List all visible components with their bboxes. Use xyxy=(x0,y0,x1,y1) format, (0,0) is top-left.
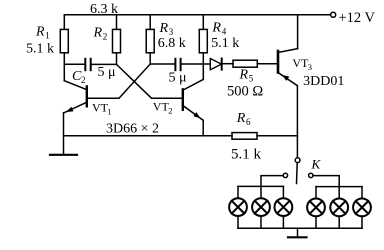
wire cross coupling R2 to VT2 base xyxy=(117,64,182,98)
label R3 xyxy=(159,21,174,37)
transistor VT3 xyxy=(278,49,298,86)
wire top rail +12V xyxy=(64,14,330,16)
diode VD xyxy=(210,59,221,70)
label R1 xyxy=(35,25,50,41)
wire lamp stubs left top xyxy=(237,186,239,198)
svg-text:3D66 × 2: 3D66 × 2 xyxy=(106,122,159,137)
svg-text:3: 3 xyxy=(308,62,312,72)
resistor R1 xyxy=(60,15,68,64)
wire left lamp top bus xyxy=(238,185,283,187)
resistor R4 xyxy=(199,15,207,80)
wire VT1 emitter to ground xyxy=(63,113,65,154)
label R5 xyxy=(239,68,254,84)
svg-text:2: 2 xyxy=(168,106,172,116)
svg-text:6.8 k: 6.8 k xyxy=(158,36,186,51)
wire right contact to right lamp bus xyxy=(313,176,339,187)
wire to ground bottom xyxy=(297,228,299,237)
label C2 xyxy=(72,69,86,85)
svg-text:5: 5 xyxy=(249,74,254,84)
svg-text:1: 1 xyxy=(45,31,50,41)
svg-text:4: 4 xyxy=(222,26,227,36)
wire lamp stubs right top xyxy=(315,187,317,199)
svg-text:R: R xyxy=(159,21,169,36)
resistor R5 xyxy=(233,60,257,67)
label VT1 xyxy=(92,101,111,117)
svg-text:K: K xyxy=(311,156,322,171)
wire bottom bus xyxy=(238,227,362,229)
wire diode to R5 xyxy=(222,63,233,65)
node A wire R1 to C2 xyxy=(64,63,84,65)
label R2 xyxy=(93,26,108,42)
svg-text:+12 V: +12 V xyxy=(339,10,376,26)
svg-text:5 μ: 5 μ xyxy=(98,65,116,80)
resistor R2 xyxy=(113,15,121,65)
transistor VT2 xyxy=(183,79,204,120)
transistor VT1 xyxy=(64,87,87,114)
arrow VT1 emitter xyxy=(66,107,73,112)
svg-text:5.1 k: 5.1 k xyxy=(211,36,239,51)
svg-text:VT: VT xyxy=(153,100,170,114)
wire VT2 emitter down xyxy=(202,120,204,136)
lamp L3 xyxy=(275,198,293,216)
wire left contact to left lamp bus xyxy=(261,176,283,187)
svg-text:VT: VT xyxy=(92,101,109,115)
wire R5 to VT3 base xyxy=(257,63,276,65)
wire VT3 emitter down xyxy=(296,86,298,136)
svg-text:R: R xyxy=(236,111,246,126)
wire right lamp top bus xyxy=(316,186,362,188)
label R6 xyxy=(236,111,251,127)
wire cap to diode xyxy=(182,63,211,65)
arrow VT3 emitter xyxy=(282,75,289,81)
wire lamp stubs bottom xyxy=(237,216,239,228)
wire R3 to cap xyxy=(150,63,174,65)
wire VT1 collector diagonal xyxy=(64,81,87,90)
svg-text:5.1 k: 5.1 k xyxy=(231,146,262,162)
node switch common terminal xyxy=(295,158,300,163)
lamp L2 xyxy=(252,198,270,216)
svg-text:500 Ω: 500 Ω xyxy=(227,84,263,100)
ground bottom xyxy=(288,236,307,238)
svg-text:2: 2 xyxy=(103,32,108,42)
svg-text:VT: VT xyxy=(292,56,309,70)
node switch right contact xyxy=(309,173,313,177)
lamp L1 xyxy=(229,198,247,216)
svg-text:6: 6 xyxy=(246,117,251,127)
wire VT3 collector to rail xyxy=(297,15,299,49)
lamp L6 xyxy=(353,199,371,217)
switch K lever xyxy=(296,163,299,184)
svg-text:5 μ: 5 μ xyxy=(169,70,187,85)
lamp L4 xyxy=(307,199,325,217)
svg-text:R: R xyxy=(211,20,221,35)
svg-text:1: 1 xyxy=(107,107,111,117)
svg-text:2: 2 xyxy=(81,75,86,85)
wire node A down xyxy=(63,64,65,81)
capacitor C2 xyxy=(85,59,90,70)
wire bottom rail xyxy=(64,135,233,137)
node +12V terminal xyxy=(331,12,336,17)
label VT3 xyxy=(292,56,312,72)
label VT2 xyxy=(153,100,173,116)
label R4 xyxy=(211,20,226,36)
resistor R3 xyxy=(146,15,154,64)
svg-text:3DD01: 3DD01 xyxy=(303,74,344,89)
lamp L5 xyxy=(330,199,348,217)
wire C2 to R2 node xyxy=(92,63,117,65)
svg-text:6.3 k: 6.3 k xyxy=(90,2,118,17)
arrow VT2 emitter xyxy=(193,112,200,118)
node switch left contact xyxy=(283,173,287,177)
wire switch common xyxy=(296,136,298,158)
wire R6 to switch node xyxy=(257,135,297,137)
svg-text:R: R xyxy=(35,25,45,40)
wire cross coupling R3 to VT1 base xyxy=(88,64,150,98)
svg-text:R: R xyxy=(93,26,103,41)
svg-text:5.1 k: 5.1 k xyxy=(26,42,54,57)
capacitor 5u right xyxy=(175,59,180,70)
ground left xyxy=(50,154,77,156)
resistor R6 xyxy=(232,133,257,140)
svg-text:R: R xyxy=(239,68,249,83)
